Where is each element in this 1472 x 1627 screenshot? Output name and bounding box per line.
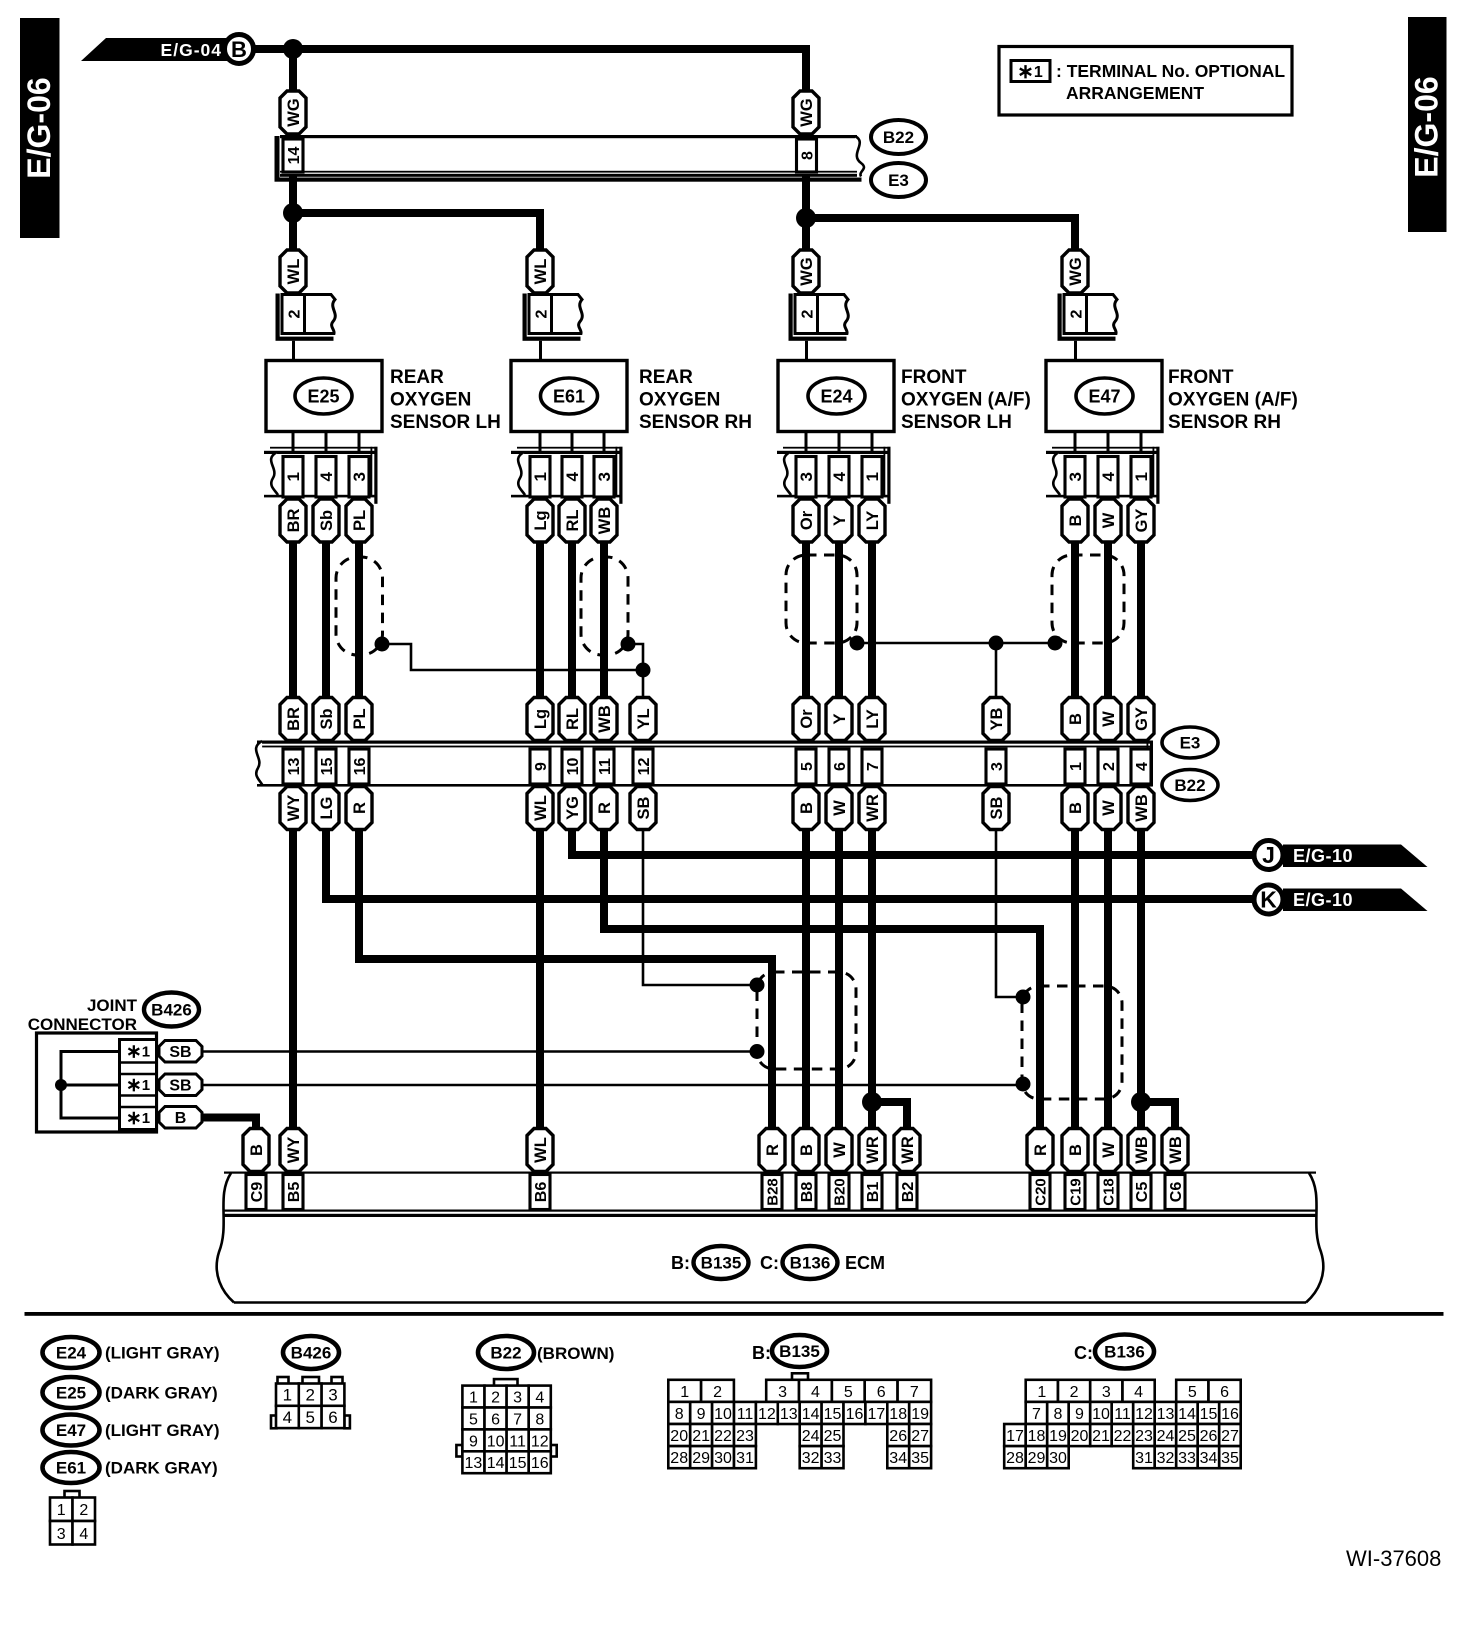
wire E24 pin 2 stub (805, 341, 808, 361)
joint connector B426 body (37, 1033, 157, 1132)
svg-text:2: 2 (799, 309, 816, 318)
pin 10 on mid bus (562, 749, 582, 784)
wire SB row1 to left shield (202, 1050, 753, 1053)
svg-text:3: 3 (513, 1390, 522, 1407)
pin 3 of E61 (594, 457, 614, 498)
pin 7 on mid bus (862, 749, 882, 784)
svg-text:W: W (1100, 800, 1118, 816)
svg-text:32: 32 (1157, 1450, 1175, 1467)
svg-text:4: 4 (535, 1390, 544, 1407)
svg-text:31: 31 (1135, 1450, 1153, 1467)
svg-text:E3: E3 (1180, 734, 1201, 753)
connector ref B426 legend (283, 1336, 339, 1369)
svg-text:16: 16 (352, 758, 369, 776)
svg-text:20: 20 (1071, 1428, 1089, 1445)
connector strip E24 (777, 432, 891, 504)
svg-text:5: 5 (469, 1412, 478, 1429)
svg-text:28: 28 (1006, 1450, 1024, 1467)
shield around R/B/W wires (rear pair, left) (757, 972, 856, 1069)
page banner E/G-06 right (1408, 17, 1447, 232)
shield around WB wire (E61) (581, 557, 628, 655)
wire label WY into ECM (280, 1129, 306, 1172)
svg-text:ARRANGEMENT: ARRANGEMENT (1066, 83, 1204, 103)
svg-text:2: 2 (79, 1502, 88, 1519)
svg-text:WR: WR (864, 1136, 882, 1164)
wire label W into ECM (826, 1129, 852, 1172)
pin grid B136 pins (1004, 1380, 1240, 1468)
svg-text:C6: C6 (1168, 1182, 1185, 1203)
wire label W below mid bus (826, 787, 852, 830)
svg-text:W: W (831, 1142, 849, 1158)
wire YG to J E/G-10 (572, 829, 1252, 855)
wire label Lg above mid bus (527, 698, 553, 741)
svg-text:∗1: ∗1 (126, 1108, 150, 1129)
svg-text:2: 2 (713, 1384, 722, 1401)
svg-text:REAR: REAR (390, 367, 444, 388)
svg-text:1: 1 (531, 472, 550, 481)
svg-text:15: 15 (824, 1406, 842, 1423)
pin 4 of E61 (562, 457, 582, 498)
svg-text:10: 10 (565, 758, 582, 776)
svg-text:10: 10 (487, 1433, 505, 1450)
svg-text:Or: Or (798, 510, 816, 530)
wire label B below mid bus (1062, 787, 1088, 830)
svg-text:Y: Y (831, 515, 849, 526)
connector ref B136 legend (1095, 1335, 1154, 1369)
wire label Y sensor lead (826, 499, 852, 542)
svg-text:SB: SB (169, 1077, 191, 1094)
svg-text:32: 32 (802, 1450, 820, 1467)
svg-text:SB: SB (635, 796, 653, 819)
wire sensor lead x=806 to bus (802, 541, 810, 699)
svg-text:B8: B8 (799, 1182, 816, 1203)
svg-text:8: 8 (675, 1406, 684, 1423)
svg-text:WB: WB (1133, 1136, 1151, 1164)
connector pin 2 of E47 (1058, 294, 1118, 341)
pin 1 of E24 (862, 457, 882, 498)
label E47 name (1168, 367, 1298, 433)
connector ref B135 legend (772, 1335, 827, 1367)
wire label PL above mid bus (346, 698, 372, 741)
pin C9 on ECM (246, 1175, 266, 1210)
svg-text:4: 4 (283, 1408, 292, 1427)
pin B5 on ECM (283, 1175, 303, 1210)
svg-text:YL: YL (635, 708, 653, 729)
connector ref E61 legend (43, 1452, 100, 1483)
svg-text:23: 23 (736, 1428, 754, 1445)
wire label Sb sensor lead (313, 499, 339, 542)
svg-text:R: R (596, 802, 614, 814)
junction WB split C5/C6 (1131, 1092, 1151, 1112)
svg-text:14: 14 (286, 147, 303, 165)
svg-text:WY: WY (285, 795, 303, 822)
svg-text:C:: C: (1074, 1343, 1093, 1363)
wire label WB into ECM (1162, 1129, 1188, 1172)
wire label LY sensor lead (859, 499, 885, 542)
svg-text:Y: Y (831, 713, 849, 724)
wire sensor lead x=872 to bus (868, 541, 876, 699)
wire WL B6 (536, 829, 544, 1130)
svg-text:B22: B22 (883, 128, 914, 147)
wire label SB below mid bus (983, 787, 1009, 830)
pin 13 on mid bus (283, 749, 303, 784)
connector ref B136 (783, 1246, 838, 1279)
svg-text:30: 30 (714, 1450, 732, 1467)
net flag K E/G-10 (1254, 885, 1428, 914)
connector ref B22 legend (478, 1336, 534, 1369)
svg-text:YG: YG (564, 796, 582, 820)
svg-text:20: 20 (670, 1428, 688, 1445)
wire E47 pin 2 stub (1074, 341, 1077, 361)
pin 14 on top bus (283, 139, 303, 172)
pin C18 on ECM (1098, 1175, 1118, 1210)
svg-text:6: 6 (491, 1412, 500, 1429)
svg-text:16: 16 (846, 1406, 864, 1423)
wire label BR sensor lead (280, 499, 306, 542)
wire E24/E47 shield drain link (857, 642, 1055, 645)
svg-text:WB: WB (596, 705, 614, 733)
svg-text:B: B (1067, 514, 1085, 526)
connector pin 2 of E24 (789, 294, 849, 341)
wire pin 8 down to WG junction (802, 176, 810, 250)
svg-text:B136: B136 (1104, 1343, 1145, 1362)
pin 16 on mid bus (349, 749, 369, 784)
svg-text:WR: WR (899, 1136, 917, 1164)
svg-text:OXYGEN (A/F): OXYGEN (A/F) (901, 390, 1031, 411)
wire SB row2 to right shield (202, 1084, 1019, 1087)
net flag E/G-04 (81, 38, 245, 61)
svg-text:3: 3 (778, 1384, 787, 1401)
junction WG branch right (796, 208, 816, 228)
wire label LY above mid bus (859, 698, 885, 741)
pin grid B426 pins (271, 1377, 350, 1428)
wire label WR below mid bus (859, 787, 885, 830)
wire label WB into ECM (1128, 1129, 1154, 1172)
svg-text:12: 12 (758, 1406, 776, 1423)
shield around Or/Y pair (E24) (786, 555, 857, 643)
wire label RL above mid bus (559, 698, 585, 741)
junction left shield upper tap (750, 978, 765, 993)
svg-text:YB: YB (988, 707, 1006, 730)
wire sensor lead x=326 to bus (322, 541, 330, 699)
svg-text:4: 4 (317, 472, 336, 482)
svg-text:E/G-10: E/G-10 (1293, 846, 1353, 866)
svg-text:4: 4 (1134, 1384, 1143, 1401)
wire W C18 (1104, 829, 1112, 1130)
svg-text:5: 5 (305, 1408, 314, 1427)
svg-text:B: B (798, 802, 816, 814)
pin 3 of E24 (796, 457, 816, 498)
svg-text:RL: RL (564, 708, 582, 730)
svg-text:CONNECTOR: CONNECTOR (28, 1015, 137, 1034)
wire label WG (pin 8 side) (793, 91, 819, 134)
svg-text:17: 17 (868, 1406, 886, 1423)
svg-text:OXYGEN: OXYGEN (639, 390, 720, 411)
wire label WB below mid bus (1128, 787, 1154, 830)
wire WB C5 (1137, 829, 1145, 1130)
svg-text:SENSOR RH: SENSOR RH (1168, 412, 1281, 433)
svg-text:WL: WL (532, 1137, 550, 1163)
svg-text:C19: C19 (1067, 1178, 1084, 1206)
wire SB drain to left shield (643, 829, 753, 985)
svg-text:3: 3 (57, 1526, 66, 1543)
svg-text:17: 17 (1006, 1428, 1024, 1445)
shield around B/W pair (E47) (1052, 555, 1124, 643)
wire label B into ECM (243, 1129, 269, 1172)
wire label W below mid bus (1095, 787, 1121, 830)
svg-text:WG: WG (285, 98, 303, 126)
svg-text:K: K (1260, 887, 1277, 913)
connector bus B22/E3 (top) (275, 135, 864, 182)
pin 1 of E47 (1131, 457, 1151, 498)
svg-text:3: 3 (350, 472, 369, 481)
svg-text:14: 14 (487, 1455, 505, 1472)
svg-text:22: 22 (1114, 1428, 1132, 1445)
wire label B above mid bus (1062, 698, 1088, 741)
svg-text:30: 30 (1049, 1450, 1067, 1467)
svg-text:W: W (1100, 1142, 1118, 1158)
pin 1 of E25 (283, 457, 303, 498)
junction E47 shield tap (1048, 636, 1063, 651)
wire label WB above mid bus (591, 698, 617, 741)
wire label LG below mid bus (313, 787, 339, 830)
svg-text:1: 1 (57, 1502, 66, 1519)
svg-text:E47: E47 (56, 1421, 86, 1440)
svg-text:(DARK GRAY): (DARK GRAY) (105, 1459, 218, 1478)
wire label B into ECM (1062, 1129, 1088, 1172)
wire label SB joint row1 (159, 1041, 202, 1063)
svg-text:24: 24 (802, 1428, 820, 1445)
separator line (25, 1312, 1444, 1316)
svg-text:WG: WG (1067, 257, 1085, 285)
wire label R into ECM (759, 1129, 785, 1172)
svg-text:E/G-04: E/G-04 (161, 40, 222, 60)
svg-text:10: 10 (1092, 1406, 1110, 1423)
svg-text:2: 2 (1070, 1384, 1079, 1401)
svg-text:WB: WB (1167, 1136, 1185, 1164)
svg-text:C:: C: (760, 1253, 779, 1273)
svg-text:26: 26 (1200, 1428, 1218, 1445)
svg-text:WL: WL (532, 259, 550, 285)
pin 6 on mid bus (829, 749, 849, 784)
wire label WY below mid bus (280, 787, 306, 830)
svg-text:14: 14 (802, 1406, 820, 1423)
wire label Lg sensor lead (527, 499, 553, 542)
page banner E/G-06 left (20, 18, 60, 238)
svg-text:5: 5 (799, 762, 816, 771)
wire label Or above mid bus (793, 698, 819, 741)
svg-text:Sb: Sb (318, 708, 336, 729)
wire label WL below mid bus (527, 787, 553, 830)
svg-text:J: J (1262, 842, 1275, 868)
junction joint internal (55, 1079, 67, 1091)
svg-text:LY: LY (864, 511, 882, 531)
label E61 name (639, 367, 752, 433)
svg-text:8: 8 (1054, 1406, 1063, 1423)
svg-text:B: B (1067, 713, 1085, 725)
svg-text:6: 6 (328, 1408, 337, 1427)
svg-text:FRONT: FRONT (901, 367, 967, 388)
svg-text:W: W (1100, 711, 1118, 727)
svg-text:2: 2 (286, 309, 303, 318)
svg-text:E61: E61 (553, 387, 585, 407)
svg-text:WG: WG (798, 98, 816, 126)
svg-text:B20: B20 (831, 1178, 848, 1206)
svg-text:9: 9 (533, 762, 550, 771)
svg-text:6: 6 (1220, 1384, 1229, 1401)
wire label W above mid bus (1095, 698, 1121, 741)
svg-text:11: 11 (509, 1433, 526, 1450)
svg-text:R: R (351, 802, 369, 814)
svg-text:B28: B28 (764, 1178, 781, 1206)
svg-text:C5: C5 (1134, 1182, 1151, 1203)
svg-text:B: B (248, 1144, 266, 1156)
svg-text:15: 15 (1200, 1406, 1218, 1423)
pin B28 on ECM (762, 1175, 782, 1210)
pin grid B22 pins (456, 1379, 556, 1473)
svg-text:7: 7 (1032, 1406, 1041, 1423)
svg-text:1: 1 (284, 472, 303, 481)
svg-text:E25: E25 (56, 1384, 86, 1403)
connector ref B22 (mid bus) (1162, 770, 1218, 801)
pin B20 on ECM (829, 1175, 849, 1210)
wire label Y above mid bus (826, 698, 852, 741)
svg-text:8: 8 (535, 1412, 544, 1429)
svg-text:REAR: REAR (639, 367, 693, 388)
pin 3 of E25 (349, 457, 369, 498)
svg-text:25: 25 (824, 1428, 842, 1445)
svg-text:9: 9 (469, 1433, 478, 1450)
svg-text:Lg: Lg (532, 510, 550, 530)
wire label YG below mid bus (559, 787, 585, 830)
pin B8 on ECM (796, 1175, 816, 1210)
svg-text:E3: E3 (888, 171, 909, 190)
connector ref E3 (mid bus) (1162, 727, 1218, 758)
svg-text:RL: RL (564, 510, 582, 532)
wire label WL to E61 pin 2 (527, 250, 553, 293)
connector ref B426 (144, 993, 199, 1027)
wire WY B5 (289, 829, 297, 1130)
svg-text:B426: B426 (151, 1001, 192, 1020)
svg-text:B6: B6 (533, 1182, 550, 1203)
svg-text:1: 1 (1037, 1384, 1046, 1401)
svg-text:34: 34 (889, 1450, 907, 1467)
pin 3 of E47 (1065, 457, 1085, 498)
svg-text:Sb: Sb (318, 510, 336, 531)
svg-text:4: 4 (830, 472, 849, 482)
svg-text:SB: SB (988, 796, 1006, 819)
junction E61 shield tap (621, 637, 636, 652)
svg-text:11: 11 (737, 1406, 754, 1423)
pin 11 on mid bus (594, 749, 614, 784)
junction right shield upper tap (1016, 990, 1031, 1005)
wire label SB joint row2 (159, 1074, 202, 1096)
svg-text:: TERMINAL No. OPTIONAL: : TERMINAL No. OPTIONAL (1056, 61, 1285, 81)
wire label WR into ECM (859, 1129, 885, 1172)
wire WR branch to B2 (872, 1102, 907, 1130)
svg-text:26: 26 (889, 1428, 907, 1445)
svg-text:9: 9 (697, 1406, 706, 1423)
svg-text:5: 5 (844, 1384, 853, 1401)
svg-text:OXYGEN (A/F): OXYGEN (A/F) (1168, 390, 1298, 411)
junction WL branch left (283, 203, 303, 223)
connector ref B135 (694, 1246, 749, 1279)
junction feed wire to WG pin 14 column (283, 39, 303, 59)
svg-text:3: 3 (595, 472, 614, 481)
svg-text:B: B (1067, 1144, 1085, 1156)
svg-text:28: 28 (670, 1450, 688, 1467)
svg-text:5: 5 (1188, 1384, 1197, 1401)
wire E61 pin 2 stub (539, 341, 542, 361)
svg-text:14: 14 (1178, 1406, 1196, 1423)
wire pin 14 down to WL junction (289, 176, 297, 250)
svg-text:B: B (231, 37, 247, 62)
wire E61 shield drain to YL (628, 644, 643, 699)
pin 5 on mid bus (796, 749, 816, 784)
svg-text:12: 12 (1135, 1406, 1153, 1423)
svg-text:9: 9 (1075, 1406, 1084, 1423)
svg-text:25: 25 (1178, 1428, 1196, 1445)
connector ref E24 legend (43, 1337, 100, 1368)
wire to WG capsule pin 14 (289, 49, 297, 92)
svg-text:21: 21 (1092, 1428, 1110, 1445)
ECM body with connector pin row (217, 1172, 1324, 1303)
svg-text:21: 21 (692, 1428, 710, 1445)
svg-text:4: 4 (811, 1384, 820, 1401)
svg-text:WB: WB (1133, 794, 1151, 822)
svg-text:15: 15 (509, 1455, 527, 1472)
svg-text:4: 4 (1099, 472, 1118, 482)
wire R to B28 (359, 829, 772, 1130)
svg-text:E25: E25 (307, 387, 339, 407)
svg-text:2: 2 (491, 1390, 500, 1407)
svg-text:R: R (1032, 1144, 1050, 1156)
svg-text:B135: B135 (779, 1342, 820, 1361)
svg-text:B135: B135 (701, 1254, 742, 1273)
junction right shield lower tap (1016, 1077, 1031, 1092)
pin 1 of E61 (530, 457, 550, 498)
junction E25 shield tap (375, 637, 390, 652)
wire WR B1 (868, 829, 876, 1130)
svg-text:19: 19 (911, 1406, 929, 1423)
wire from E/G-04 connector B to WG pin 8 column (252, 49, 806, 91)
svg-text:B136: B136 (790, 1254, 831, 1273)
wire label YL above mid bus (630, 698, 656, 741)
note box: terminal no. optional arrangement (999, 47, 1292, 116)
net flag J E/G-10 (1254, 841, 1428, 870)
pin 4 of E24 (829, 457, 849, 498)
svg-text:WG: WG (798, 257, 816, 285)
svg-text:W: W (1100, 512, 1118, 528)
svg-text:13: 13 (286, 758, 303, 776)
wire label WG to E47 pin 2 (1062, 250, 1088, 293)
svg-text:WI-37608: WI-37608 (1346, 1546, 1441, 1571)
svg-text:B:: B: (671, 1253, 690, 1273)
wire sensor lead x=293 to bus (289, 541, 297, 699)
node B (in-sheet connector) (225, 35, 254, 64)
wire sensor lead x=604 to bus (600, 541, 608, 699)
wire sensor lead x=1108 to bus (1104, 541, 1112, 699)
svg-text:2: 2 (533, 309, 550, 318)
svg-text:23: 23 (1135, 1428, 1153, 1445)
wire B row3 to C9 (201, 1118, 256, 1131)
svg-text:3: 3 (328, 1386, 337, 1405)
wire branch to E47 WG (806, 218, 1075, 250)
svg-text:35: 35 (911, 1450, 929, 1467)
wire label SB below mid bus (630, 787, 656, 830)
label E25 name (390, 367, 501, 433)
svg-text:B: B (175, 1110, 187, 1127)
